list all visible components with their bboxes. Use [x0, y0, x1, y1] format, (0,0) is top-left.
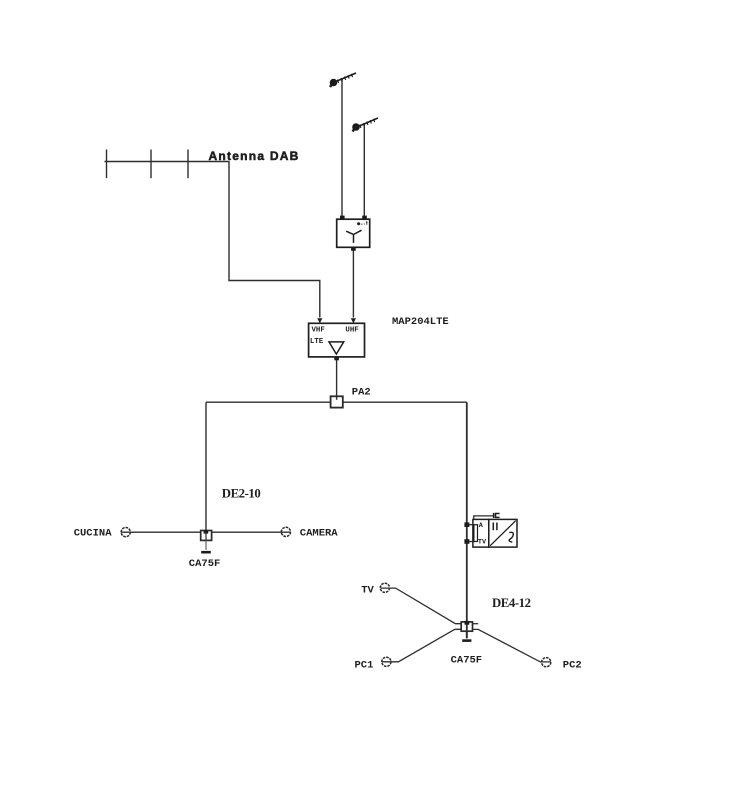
pin amplifier output	[334, 357, 339, 360]
svg-text:CA75F: CA75F	[451, 654, 483, 666]
antenna DAB element tick 2	[150, 150, 152, 179]
pin UHF input arrow	[351, 318, 356, 323]
svg-text:CA75F: CA75F	[189, 558, 221, 570]
wire CAMERA outlet line	[212, 531, 291, 533]
wire PC1 outlet diagonal	[382, 629, 461, 661]
pin combiner input 2	[362, 216, 367, 220]
outlet CAMERA circle	[281, 527, 290, 536]
wire inserter stub upper	[467, 524, 475, 526]
wire inserter stub lower	[467, 541, 475, 543]
svg-text:CUCINA: CUCINA	[74, 528, 113, 540]
outlet PC1 circle	[382, 657, 391, 666]
wire PA2 horizontal distribution line	[206, 401, 467, 403]
svg-text:PC2: PC2	[563, 660, 582, 672]
outlet CUCINA circle	[121, 528, 130, 537]
pin VHF input arrow	[317, 318, 322, 323]
svg-text:VHF: VHF	[312, 327, 325, 335]
antenna DAB element tick 1	[106, 150, 108, 179]
svg-text:PA2: PA2	[352, 386, 371, 398]
svg-text:TV: TV	[478, 539, 487, 547]
terminator CA75F bar	[201, 551, 211, 554]
svg-text:MAP204LTE: MAP204LTE	[392, 316, 449, 328]
pin combiner output	[351, 247, 356, 251]
svg-text:DE4-12: DE4-12	[492, 596, 531, 610]
outlet PC2 circle	[542, 658, 551, 667]
terminator CA75F bar	[462, 639, 471, 642]
svg-text:DE2-10: DE2-10	[222, 486, 261, 500]
antenna ANT1	[330, 73, 356, 87]
pin inserter upper	[464, 522, 469, 527]
combiner U1 box	[337, 216, 370, 251]
svg-text:Antenna DAB: Antenna DAB	[209, 149, 300, 163]
antenna ANT1 mast	[341, 79, 343, 219]
power supply DC bars	[492, 523, 494, 531]
wire TV outlet diagonal	[381, 588, 462, 624]
antenna ANT2 mast	[363, 124, 365, 219]
wire DE4-12 right upper stub	[473, 623, 479, 625]
inserter coupling loop	[474, 525, 478, 542]
mains plug icon	[494, 513, 500, 518]
pin inserter lower	[464, 539, 469, 544]
svg-text:LTE: LTE	[310, 338, 324, 346]
amplifier U2 MAP204LTE box	[309, 318, 365, 360]
pin combiner input 1	[340, 216, 345, 220]
wire power inserter top lead	[474, 516, 494, 520]
wire left branch vertical to DE2-10	[205, 402, 207, 530]
tap DE2-10 node	[201, 530, 212, 552]
power inserter A/TV box	[473, 519, 489, 547]
wire PC2 outlet diagonal	[473, 629, 551, 662]
svg-text:CAMERA: CAMERA	[300, 528, 339, 540]
wire CUCINA outlet line	[121, 531, 201, 533]
antenna DAB element tick 3	[187, 150, 189, 179]
wire DE4-12 left stubs	[455, 628, 461, 630]
antenna ANT2	[352, 118, 378, 132]
splitter PA2 node	[331, 396, 343, 407]
wire right branch vertical PA2 to DE4-12	[466, 402, 468, 638]
power inserter U3	[464, 513, 517, 547]
power supply diagonal	[490, 521, 516, 546]
svg-text:TV: TV	[361, 585, 374, 597]
svg-text:UHF: UHF	[345, 327, 358, 335]
wire combiner output to amplifier UHF input	[352, 251, 354, 318]
svg-text:PC1: PC1	[355, 659, 374, 671]
wire amplifier output to PA2	[336, 360, 338, 400]
power supply U4 box	[489, 519, 517, 547]
power supply AC squiggle	[509, 532, 513, 542]
splitter DE4-12 node	[461, 621, 472, 641]
combiner tiny marking	[357, 222, 360, 225]
combiner Y symbol	[346, 230, 361, 243]
wire DAB antenna line	[105, 162, 320, 318]
amplifier triangle symbol	[329, 342, 344, 354]
outlet TV circle	[380, 583, 389, 592]
